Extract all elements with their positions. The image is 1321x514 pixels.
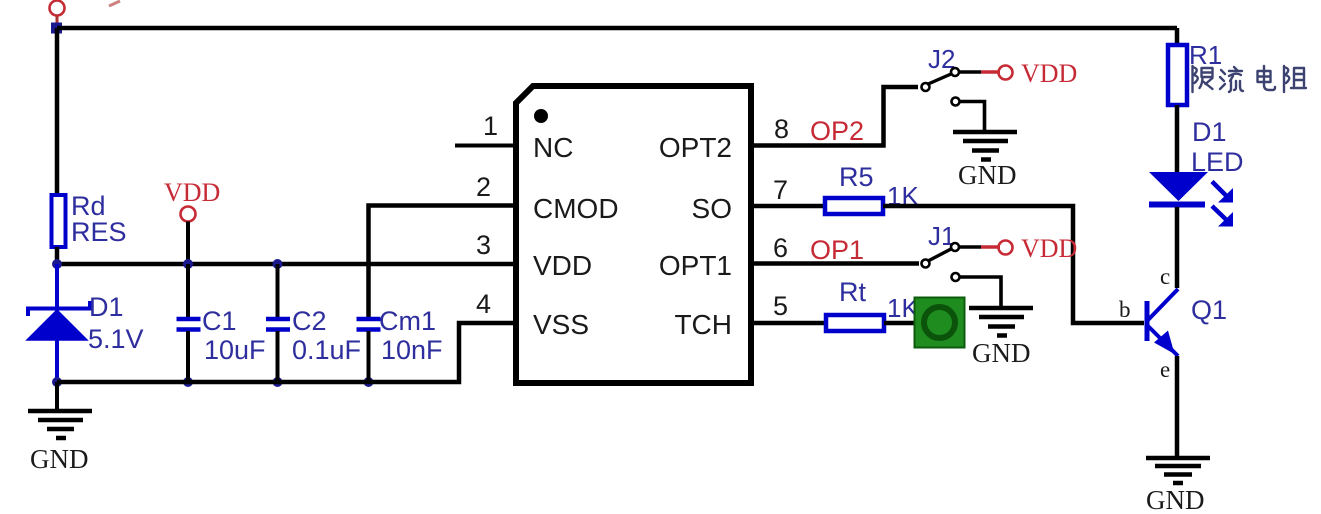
LED D1 bbox=[1149, 117, 1244, 227]
junction bottom bus at C2 bbox=[273, 377, 283, 387]
wire Rt to touch pad bbox=[884, 321, 915, 326]
svg-text:VDD: VDD bbox=[1021, 234, 1077, 263]
wire TCH to Rt bbox=[751, 321, 826, 326]
wire J1 lower contact to ground bbox=[960, 277, 1002, 306]
junction bus top at Rd bbox=[52, 259, 62, 269]
capacitor Cm1 bbox=[357, 306, 443, 382]
svg-text:D1: D1 bbox=[1192, 117, 1227, 147]
wire LED to Q1 collector bbox=[1175, 207, 1180, 288]
ground GND at J1 bbox=[969, 308, 1033, 368]
label xianliu dianzu (Chinese) bbox=[1193, 66, 1307, 92]
wire top rail to R1 bbox=[1175, 28, 1180, 45]
junction bottom bus at C1 bbox=[183, 377, 193, 387]
svg-text:10uF: 10uF bbox=[204, 335, 266, 365]
char dian bbox=[1258, 66, 1276, 90]
svg-text:3: 3 bbox=[476, 230, 491, 260]
svg-text:GND: GND bbox=[1146, 485, 1205, 514]
svg-text:10nF: 10nF bbox=[381, 335, 443, 365]
svg-text:VDD: VDD bbox=[164, 178, 220, 207]
svg-text:6: 6 bbox=[773, 233, 788, 263]
svg-text:GND: GND bbox=[958, 160, 1017, 190]
svg-text:OPT1: OPT1 bbox=[659, 250, 732, 281]
zener diode D1 5.1V bbox=[27, 264, 144, 382]
svg-text:R5: R5 bbox=[839, 162, 874, 192]
wire Rd to VDD bus bbox=[55, 247, 60, 264]
wire VDD bus bbox=[57, 262, 513, 267]
svg-text:c: c bbox=[1160, 264, 1170, 289]
IC U1 body bbox=[516, 86, 751, 383]
svg-text:VDD: VDD bbox=[533, 250, 592, 281]
svg-text:GND: GND bbox=[972, 338, 1031, 368]
svg-text:4: 4 bbox=[476, 289, 491, 319]
wire Q1 emitter to ground bbox=[1175, 356, 1180, 457]
wire top rail bbox=[57, 26, 1177, 31]
wire OPT2 to J2 bbox=[751, 87, 918, 146]
junction bottom bus at D1 bbox=[52, 377, 62, 387]
svg-text:OP2: OP2 bbox=[810, 116, 864, 146]
wire OPT1 to J1 bbox=[751, 261, 919, 266]
svg-text:C1: C1 bbox=[202, 306, 237, 336]
resistor Rd bbox=[52, 191, 127, 247]
svg-text:OP1: OP1 bbox=[810, 235, 864, 265]
svg-text:SO: SO bbox=[692, 193, 732, 224]
svg-text:7: 7 bbox=[773, 175, 788, 205]
wire D1 to ground bbox=[55, 382, 59, 410]
wire J2 to VDD bbox=[959, 70, 981, 74]
capacitor C2 bbox=[266, 264, 361, 382]
char zu bbox=[1284, 66, 1306, 92]
wire J1 to VDD bbox=[959, 245, 981, 249]
svg-text:Cm1: Cm1 bbox=[379, 306, 436, 336]
wire left drop to Rd bbox=[55, 28, 60, 195]
svg-text:R1: R1 bbox=[1189, 40, 1222, 70]
ground GND left bbox=[28, 411, 92, 474]
svg-text:2: 2 bbox=[476, 172, 491, 202]
svg-text:Rt: Rt bbox=[839, 277, 866, 307]
wire bottom bus to VSS pin4 bbox=[57, 323, 513, 382]
svg-text:RES: RES bbox=[71, 217, 127, 247]
svg-text:VDD: VDD bbox=[1021, 59, 1077, 88]
svg-text:1: 1 bbox=[483, 111, 498, 141]
junction top-left bbox=[51, 23, 62, 34]
svg-text:C2: C2 bbox=[292, 306, 327, 336]
wire CMOD pin2 to Cm1 bbox=[369, 206, 514, 318]
ground GND at Q1 bbox=[1146, 458, 1210, 514]
svg-text:TCH: TCH bbox=[674, 309, 732, 340]
power port VDD top-left bbox=[50, 1, 121, 26]
power port VDD at J1 bbox=[999, 241, 1013, 255]
svg-text:5: 5 bbox=[773, 291, 788, 321]
ground GND at J2 bbox=[953, 132, 1017, 190]
char xian bbox=[1193, 66, 1213, 92]
svg-text:e: e bbox=[1160, 357, 1170, 382]
svg-text:Q1: Q1 bbox=[1191, 295, 1227, 325]
junction bottom bus at Cm1 bbox=[364, 377, 374, 387]
svg-text:b: b bbox=[1119, 297, 1131, 322]
wire R1 to LED bbox=[1175, 105, 1180, 172]
svg-text:8: 8 bbox=[774, 114, 789, 144]
wire R5 to Q1 base bbox=[883, 206, 1144, 323]
resistor Rt bbox=[826, 277, 919, 331]
junction bus top at C2 bbox=[273, 259, 283, 269]
touch pad bbox=[915, 298, 965, 348]
svg-text:OPT2: OPT2 bbox=[659, 132, 732, 163]
switch J2 bbox=[922, 44, 960, 106]
svg-text:VSS: VSS bbox=[533, 309, 589, 340]
capacitor C1 bbox=[177, 264, 266, 382]
wire SO to R5 bbox=[751, 204, 825, 209]
wire J2 lower contact to ground bbox=[960, 102, 985, 131]
svg-text:0.1uF: 0.1uF bbox=[292, 335, 361, 365]
svg-text:GND: GND bbox=[30, 444, 89, 474]
junction bus top at C1 bbox=[183, 259, 193, 269]
svg-text:NC: NC bbox=[533, 132, 573, 163]
power port VDD at C1 bbox=[164, 178, 220, 264]
svg-text:CMOD: CMOD bbox=[533, 193, 619, 224]
IC pin1 stub bbox=[455, 144, 513, 148]
power port VDD at J2 bbox=[999, 66, 1013, 80]
transistor Q1 bbox=[1119, 264, 1227, 382]
svg-text:5.1V: 5.1V bbox=[88, 324, 144, 354]
resistor R5 bbox=[825, 162, 919, 214]
switch J1 bbox=[922, 221, 960, 281]
svg-text:D1: D1 bbox=[89, 292, 124, 322]
resistor R1 bbox=[1168, 40, 1222, 105]
char liu bbox=[1220, 67, 1243, 92]
